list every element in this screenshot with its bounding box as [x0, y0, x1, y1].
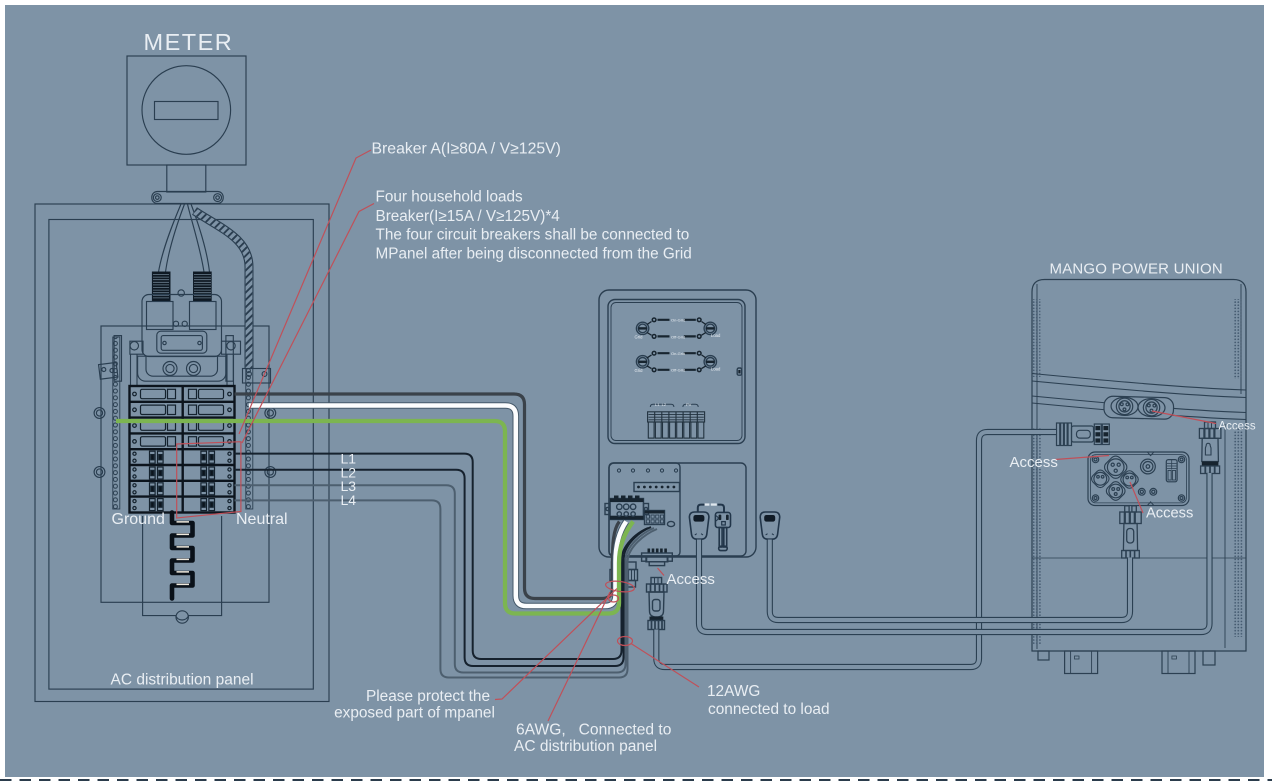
svg-text:METER: METER	[144, 29, 234, 55]
DB9 serial port	[648, 549, 667, 554]
right side face edge	[1224, 424, 1226, 648]
ports panel	[1088, 452, 1189, 506]
lower compartment	[609, 463, 746, 556]
terminal strip	[634, 483, 680, 492]
lower horizontal line	[1032, 557, 1246, 559]
wall outlet	[715, 512, 730, 527]
cable MPanel-access to AC-in port	[656, 432, 1056, 667]
XLR bottom	[1104, 480, 1127, 503]
svg-text:L4: L4	[341, 492, 357, 508]
leader 6AWG	[548, 592, 610, 721]
svg-text:Access: Access	[667, 571, 715, 588]
leader Access left	[1055, 456, 1109, 460]
leader Access top-right	[1152, 411, 1216, 424]
white neutral wire	[249, 406, 626, 607]
svg-text:Grid: Grid	[635, 335, 644, 340]
MPanel outer box	[599, 290, 756, 557]
right vertical barrel connector	[1199, 422, 1221, 474]
svg-text:Neutral: Neutral	[236, 511, 288, 528]
XLR top	[1102, 454, 1129, 481]
two small ports	[1138, 488, 1145, 495]
main screws	[163, 362, 177, 376]
meter box	[127, 56, 246, 165]
leader 12AWG	[631, 644, 699, 688]
main service cable lugs (ribbed black)	[152, 272, 170, 301]
gray hot wire	[235, 394, 620, 599]
svg-text:connected to load: connected to load	[708, 701, 830, 718]
service entrance zigzag wire	[172, 513, 193, 599]
svg-text:Breaker(I≥15A / V≥125V)*4: Breaker(I≥15A / V≥125V)*4	[376, 208, 561, 225]
wire L3	[235, 485, 655, 672]
svg-text:Access: Access	[1219, 421, 1256, 433]
hatched conduit	[195, 211, 250, 368]
svg-text:Breaker A(I≥80A / V≥125V): Breaker A(I≥80A / V≥125V)	[372, 141, 561, 158]
svg-text:AC distribution panel: AC distribution panel	[111, 672, 254, 689]
unit body	[1032, 280, 1246, 652]
callout ellipse wire exit	[609, 595, 619, 602]
breaker handle cover	[138, 356, 226, 381]
main terminal block	[610, 499, 644, 520]
svg-text:AC distribution panel: AC distribution panel	[514, 738, 657, 755]
neutral bus dotted strip right	[246, 337, 253, 509]
bottom plate with notch	[143, 516, 222, 620]
wire L1	[235, 454, 649, 659]
svg-text:L1 L2: L1 L2	[655, 402, 667, 407]
leader Please protect	[495, 589, 617, 700]
left angled plate	[99, 362, 118, 379]
small vent rects on feet	[1075, 656, 1080, 659]
AC panel inner box	[49, 220, 313, 690]
leader Access mpanel	[658, 568, 665, 576]
oval knockout	[667, 521, 674, 526]
svg-text:Ground: Ground	[112, 511, 165, 528]
outlet handle	[719, 528, 722, 548]
svg-text:MANGO POWER UNION: MANGO POWER UNION	[1050, 261, 1223, 278]
meter service wires into panel	[159, 204, 182, 272]
bracket bolt left	[153, 194, 161, 202]
XLR left	[1090, 468, 1111, 489]
bracket labels above breakers	[650, 404, 674, 407]
cable gland	[612, 562, 637, 570]
svg-text:Please protect the: Please protect the	[366, 688, 490, 705]
svg-text:Off-Grid: Off-Grid	[671, 334, 685, 339]
round connector	[1141, 459, 1156, 474]
mini breaker row	[648, 412, 705, 438]
breaker rows type B (tandem rows)	[133, 451, 231, 463]
svg-text:The four circuit breakers shal: The four circuit breakers shall be conne…	[376, 226, 690, 243]
svg-text:Load: Load	[711, 333, 721, 338]
transfer switch schematic 1	[635, 317, 721, 339]
wire L2	[235, 470, 652, 666]
leader Breaker A	[239, 150, 371, 434]
svg-text:Access: Access	[1146, 506, 1193, 522]
callout ellipse gland	[605, 580, 635, 594]
green ground wire	[116, 421, 633, 614]
cable plug P1 to right port	[699, 473, 1210, 632]
svg-text:exposed part of mpanel: exposed part of mpanel	[334, 705, 495, 722]
jumper bracket	[698, 505, 724, 513]
leader Access panel-bottom	[1130, 482, 1143, 513]
svg-text:On-Grid: On-Grid	[671, 318, 685, 323]
svg-text:Four household loads: Four household loads	[376, 189, 523, 206]
top screws	[617, 469, 677, 472]
panel breaker	[1166, 460, 1177, 482]
wire L4	[235, 500, 658, 677]
svg-text:12AWG: 12AWG	[707, 683, 760, 700]
meter mounting bracket	[152, 192, 223, 204]
side bracket bars	[114, 336, 121, 382]
meter pedestal	[167, 165, 206, 192]
cable plug P2 to panel port	[770, 540, 1130, 621]
shoulder curves	[1032, 374, 1246, 391]
side texture dots	[1033, 299, 1041, 377]
bottom dashed line	[0, 779, 1272, 781]
breaker rows type A (switch rows)	[133, 389, 232, 398]
MPanel inner door	[608, 300, 745, 444]
console slot	[157, 331, 207, 353]
AC-in barrel connector (horizontal)	[1057, 423, 1110, 446]
svg-text:Access: Access	[1010, 454, 1058, 471]
XLR right	[1119, 469, 1140, 490]
svg-text:PV: PV	[686, 402, 692, 407]
AC panel outer box	[35, 204, 329, 702]
highlight quad around load breakers	[177, 442, 241, 518]
feet	[1065, 651, 1098, 674]
access mating connector	[651, 578, 662, 585]
meter display	[155, 102, 219, 120]
svg-text:6AWG, Connected to: 6AWG, Connected to	[516, 722, 672, 739]
meter dial circle	[142, 66, 231, 155]
plug P1 head	[689, 512, 709, 539]
mounting plate	[101, 326, 269, 602]
mounting hole circles	[94, 408, 105, 419]
secondary terminal block	[645, 511, 665, 525]
AC input recess	[1104, 396, 1174, 419]
main breaker housing	[142, 295, 222, 357]
svg-text:MPanel after being disconnecte: MPanel after being disconnected from the…	[376, 245, 692, 262]
inner side lines	[1036, 284, 1038, 649]
door latch	[737, 368, 741, 375]
conduit end block	[243, 369, 271, 384]
breaker stack outer	[130, 386, 235, 513]
callout ellipse bundle	[618, 637, 633, 646]
bottom vertical barrel connector	[1120, 506, 1141, 558]
bracket bolt right	[214, 194, 222, 202]
plug P2 head	[760, 512, 780, 539]
leader Four household loads	[242, 204, 374, 444]
ground bus dotted strip left	[113, 337, 120, 509]
